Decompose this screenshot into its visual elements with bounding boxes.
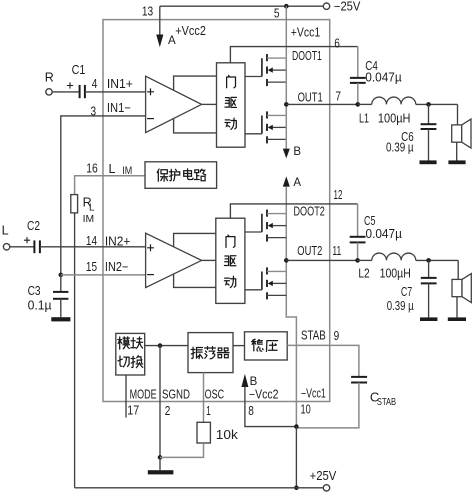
wire: STAB pin 9 to C-STAB <box>287 345 359 377</box>
wire: R-LIM lead down to bottom rail <box>74 213 76 488</box>
wire: pin 17 MODE stub <box>125 375 127 418</box>
svg-text:5: 5 <box>274 7 280 21</box>
op-amp U1A (channel 1 comparator) <box>146 76 202 132</box>
inductor L1 100uH <box>372 97 416 104</box>
svg-text:IN1+: IN1+ <box>107 77 133 91</box>
svg-text:OUT1: OUT1 <box>298 91 323 105</box>
wire: op-amp2 output to gate-drive 2 <box>202 259 216 261</box>
svg-text:IN1−: IN1− <box>107 101 131 115</box>
wire: pin 12 down to C5 <box>357 204 359 237</box>
wire: L2 to speaker 2 <box>416 259 458 261</box>
junction: C4 / L1 node <box>356 102 361 107</box>
protection block (bao-hu-dian-lu) <box>145 162 217 189</box>
svg-text:C1: C1 <box>72 63 86 77</box>
wire: feedback node to C3 <box>60 275 62 292</box>
ground (speaker 1) <box>448 160 465 164</box>
svg-text:10k: 10k <box>216 427 239 442</box>
ground (C3) <box>51 317 70 321</box>
wire: pin 8 -Vcc2 to supply node <box>245 387 297 427</box>
svg-text:100µH: 100µH <box>380 266 411 280</box>
junction: SGND / 10k return <box>158 455 163 460</box>
svg-text:0.047µ: 0.047µ <box>366 227 402 241</box>
transistor Q3 (bridge2 high-side MOSFET) <box>245 210 286 242</box>
svg-text:6: 6 <box>334 36 340 50</box>
regulator block (wen-ya) <box>245 332 288 360</box>
wire: mode-switch to oscillator <box>145 345 188 347</box>
capacitor C3 <box>53 291 68 293</box>
terminal L input <box>3 244 9 250</box>
wire: L1 to speaker 1 <box>416 103 458 105</box>
capacitor C5 <box>350 236 366 238</box>
wire: op-amp2 bottom to gate-drive 2 <box>174 274 216 287</box>
wire: to C6 <box>428 104 430 124</box>
svg-text:C2: C2 <box>27 219 40 233</box>
svg-text:SGND: SGND <box>162 387 190 401</box>
wire: top supply rail to -25V terminal <box>160 5 324 7</box>
svg-text:IN2−: IN2− <box>105 260 128 274</box>
wire: speaker 2 to ground <box>456 297 458 318</box>
wire: oscillator to regulator <box>233 345 245 347</box>
svg-text:100µH: 100µH <box>378 111 411 125</box>
svg-text:11: 11 <box>332 244 341 258</box>
arrow A (+Vcc2 feed, pointing down) <box>156 35 163 48</box>
wire: pin 6 down to C4 <box>357 47 359 78</box>
wire: bridge 2 rail down to -Vcc1 pin 10 <box>286 187 296 427</box>
wire: down to speaker 1 <box>457 104 459 125</box>
svg-text:OUT2: OUT2 <box>297 244 322 258</box>
wire: bridge 1 rail <box>285 58 287 149</box>
svg-text:OSC: OSC <box>205 387 225 401</box>
svg-text:DOOT1: DOOT1 <box>292 49 322 63</box>
wire: pin 13 lead down into IC <box>159 6 161 34</box>
wire: C7 to ground <box>428 283 430 317</box>
capacitor C1 <box>67 82 73 88</box>
svg-text:C5: C5 <box>364 214 375 228</box>
svg-text:+Vcc1: +Vcc1 <box>291 26 320 40</box>
svg-text:STAB: STAB <box>301 329 326 343</box>
svg-text:−Vcc1: −Vcc1 <box>301 387 326 401</box>
arrow B (to -Vcc2, pointing down) <box>283 149 290 159</box>
wire: op-amp1 top to gate-drive 1 <box>174 76 217 90</box>
wire: pin 3 IN1- feedback down the left side <box>61 116 146 275</box>
resistor R-LIM <box>71 195 78 213</box>
svg-text:0.1µ: 0.1µ <box>28 299 52 313</box>
junction: C5 / L2 node <box>355 258 360 263</box>
wire: down to speaker 2 <box>457 260 459 279</box>
terminal -25V <box>323 3 329 9</box>
svg-text:17: 17 <box>127 404 139 418</box>
wire: SGND pin 2 down to ground <box>159 346 161 458</box>
svg-text:STAB: STAB <box>377 396 396 408</box>
svg-text:B: B <box>250 376 258 388</box>
transistor Q2 (bridge1 low-side MOSFET) <box>245 111 286 143</box>
wire: C6 to ground <box>428 129 430 161</box>
svg-text:7: 7 <box>335 90 341 104</box>
wire: op-amp1 output to gate-drive 1 <box>202 103 217 105</box>
wire: speaker 1 to ground <box>456 142 458 160</box>
wire: C-STAB return to -Vcc node <box>296 383 359 428</box>
transistor Q1 (bridge1 high-side MOSFET) <box>245 54 286 86</box>
svg-text:9: 9 <box>334 329 340 343</box>
transistor Q4 (bridge2 low-side MOSFET) <box>245 267 286 299</box>
wire: C1 to pin 4 IN1+ <box>85 91 146 93</box>
wire: C3 to ground <box>60 299 62 317</box>
ground (C6) <box>420 160 437 164</box>
IC boundary rectangle U1 <box>103 20 330 402</box>
capacitor C-STAB <box>351 376 367 378</box>
resistor 10k <box>197 422 210 443</box>
svg-text:16: 16 <box>86 162 98 176</box>
wire: C2 to pin 14 IN2+ <box>40 246 146 248</box>
svg-text:0.39 µ: 0.39 µ <box>386 141 414 155</box>
svg-text:4: 4 <box>92 77 98 91</box>
svg-text:15: 15 <box>86 260 97 274</box>
svg-text:8: 8 <box>248 404 254 418</box>
terminal +25V <box>323 485 329 491</box>
svg-text:−Vcc2: −Vcc2 <box>249 387 279 401</box>
ground (speaker 2) <box>448 317 466 321</box>
svg-text:13: 13 <box>142 4 153 18</box>
wire: pin 16 to R-LIM <box>75 176 145 195</box>
oscillator block (zhen-dang-qi) <box>188 333 233 373</box>
svg-text:12: 12 <box>334 188 343 202</box>
node OUT2 <box>284 258 289 263</box>
capacitor C2 <box>24 237 30 243</box>
svg-text:IN2+: IN2+ <box>105 234 130 248</box>
junction: C7 tap <box>426 258 431 263</box>
junction: SGND tap <box>158 343 163 348</box>
gate-driver block 1 (men-qu-dong) <box>217 63 246 147</box>
op-amp U1B (channel 2 comparator) <box>146 233 202 287</box>
svg-text:L: L <box>2 223 9 237</box>
wire: bottom +25V rail <box>75 487 324 489</box>
junction: -Vcc2/-Vcc1/C-STAB <box>294 424 299 429</box>
svg-text:C7: C7 <box>401 285 412 299</box>
wire: OUT2 to pin 11 and C5 node <box>286 259 357 261</box>
wire: to C7 <box>428 260 430 278</box>
wire: gate-drive 1 top to pin 6 (DOOT1 bootstrap) <box>230 47 357 63</box>
wire: C5 to OUT2 node <box>357 242 359 260</box>
wire: L input to C2 <box>10 246 34 248</box>
wire: OSC pin 1 to 10k <box>203 373 205 423</box>
svg-text:IM: IM <box>83 213 95 225</box>
wire: op-amp1 bottom to gate-drive 1 <box>174 119 217 133</box>
svg-text:+Vcc2: +Vcc2 <box>175 24 206 38</box>
svg-text:+25V: +25V <box>310 469 337 483</box>
terminal R input <box>46 89 52 95</box>
junction: bottom rail <box>294 486 299 491</box>
wire: gate-drive 2 top to pin 12 (DOOT2 bootstrap) <box>230 204 357 218</box>
node OUT1 <box>284 102 289 107</box>
gate-driver block 2 (men-qu-dong) <box>216 218 245 303</box>
speaker LS2 <box>452 274 471 303</box>
svg-text:A: A <box>293 177 301 189</box>
svg-text:B: B <box>293 146 301 158</box>
svg-text:0.047µ: 0.047µ <box>365 71 401 85</box>
wire: OUT1 to pin 7 and C4 node <box>286 103 358 105</box>
wire: C4 to OUT1 node <box>357 83 359 105</box>
arrow A (from +Vcc2, pointing up) <box>283 176 290 186</box>
junction: feedback to pin 15 <box>59 273 64 278</box>
svg-text:−25V: −25V <box>334 0 361 14</box>
capacitor C7 <box>421 277 437 279</box>
wire: op-amp2 top to gate-drive 2 <box>174 233 216 246</box>
wire: pin 15 IN2- <box>61 274 146 276</box>
svg-text:1: 1 <box>206 404 211 418</box>
capacitor C4 <box>350 77 366 79</box>
capacitor C6 <box>421 123 437 125</box>
svg-text:0.39 µ: 0.39 µ <box>387 299 414 313</box>
svg-text:L: L <box>89 202 95 213</box>
wire: 10k to SGND node <box>160 443 204 457</box>
inductor L2 100uH <box>372 253 416 260</box>
junction: C6 tap <box>426 102 431 107</box>
wire: node to L1 <box>358 103 372 105</box>
svg-text:R: R <box>45 70 54 84</box>
svg-text:10: 10 <box>301 403 311 417</box>
svg-text:MODE: MODE <box>130 387 157 401</box>
wire: supply node down to +25V rail <box>295 427 297 488</box>
speaker LS1 <box>452 119 471 148</box>
svg-text:L1: L1 <box>359 111 369 125</box>
svg-text:L2: L2 <box>358 266 369 280</box>
svg-text:C3: C3 <box>28 284 41 298</box>
arrow B (-Vcc2 feed, pointing up) <box>241 374 248 387</box>
svg-text:2: 2 <box>165 404 171 418</box>
junction: pin5 on top rail <box>284 4 289 9</box>
mode-switch block (mo-kuai-qie-huan) <box>116 333 145 375</box>
svg-text:14: 14 <box>86 234 97 248</box>
wire: to ground bar <box>159 457 161 470</box>
svg-text:L: L <box>109 162 116 176</box>
wire: R input to C1 <box>52 91 78 93</box>
svg-text:DOOT2: DOOT2 <box>294 204 325 218</box>
wire: node to L2 <box>358 259 372 261</box>
wire: pin 5 +Vcc1 rail into bridge 1 <box>285 6 287 58</box>
ground (SGND) <box>148 470 174 474</box>
ground (C7) <box>420 317 437 321</box>
